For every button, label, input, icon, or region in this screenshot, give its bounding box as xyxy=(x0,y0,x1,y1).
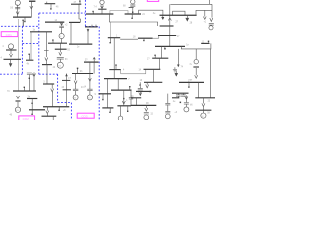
tick dot bus28r xyxy=(208,41,210,43)
bus 35 xyxy=(99,93,112,95)
wire drop to G7r xyxy=(195,49,197,60)
wire G5 drop with dot xyxy=(132,8,134,15)
square tap above bus29 xyxy=(154,56,156,58)
wire drop to G8 xyxy=(61,27,63,33)
label box CO3 xyxy=(77,113,94,118)
load arrow below bus41 xyxy=(145,105,148,111)
wire drop x89.9 xyxy=(89,62,91,89)
wire to G8b xyxy=(89,91,91,95)
load arrow stub x176.3 xyxy=(175,70,178,76)
generator G7 xyxy=(100,0,104,4)
wire long right riser xyxy=(169,4,171,46)
wire elbow over bus24 xyxy=(173,11,185,15)
wire drop to main bus xyxy=(101,9,103,14)
wire long center riser xyxy=(113,38,115,79)
wire GA xyxy=(75,84,77,95)
square tap below bus36 xyxy=(109,108,111,112)
bus 4 xyxy=(85,26,98,28)
dot x29.4 xyxy=(29,78,30,79)
bus 44 xyxy=(172,97,179,99)
generator G-tr xyxy=(209,26,213,30)
transformer X5 xyxy=(130,5,135,6)
wire gray feeder left xyxy=(17,19,19,91)
transformer X8 xyxy=(59,26,64,27)
bus 43 xyxy=(172,92,189,94)
load arrow x52 xyxy=(51,84,54,92)
wire to bus16 xyxy=(46,114,48,117)
wire v31 xyxy=(30,1,32,17)
wire drop x159.3 xyxy=(158,58,160,69)
bus 23 xyxy=(160,25,174,27)
wire line1 right drop xyxy=(211,4,213,17)
wire drop below X7r xyxy=(195,68,197,76)
bus 32 xyxy=(72,73,93,75)
bus 47 mid xyxy=(109,69,120,71)
wire gray riser center xyxy=(109,22,111,38)
load arrow under G7 xyxy=(101,5,104,9)
generator G14 xyxy=(184,107,189,112)
svg-text:CO2: CO2 xyxy=(23,117,30,120)
chain x75.6 xyxy=(74,74,77,84)
wire drop x136.3 xyxy=(135,98,137,106)
transformer pair b xyxy=(181,95,186,96)
load arrow x204.8 xyxy=(203,10,206,19)
load arrow right chain xyxy=(210,18,213,22)
load chain below bus15 xyxy=(46,107,49,114)
transformer bars GA xyxy=(73,89,78,91)
wire zone-seg B xyxy=(84,0,86,27)
wire tick up xyxy=(46,2,48,4)
wire zone-seg G xyxy=(21,26,23,74)
load arrow +2 xyxy=(60,22,63,25)
generator G7r xyxy=(194,60,198,64)
bar tick xyxy=(44,50,49,52)
wire lower link y22 xyxy=(109,14,157,26)
bus 12 xyxy=(29,109,45,111)
load tap dot xyxy=(24,17,26,21)
transformer X10 xyxy=(16,100,21,101)
square tap above bus32 xyxy=(77,69,79,74)
transformer X13b xyxy=(165,111,170,113)
load arrow L30 xyxy=(30,6,33,9)
generator G10 xyxy=(57,62,63,68)
wire zone-seg M xyxy=(70,103,72,120)
svg-text:CO1: CO1 xyxy=(6,33,13,37)
transformer X6 xyxy=(15,7,20,8)
load arrow G7r xyxy=(195,75,198,78)
load arrow x18 top xyxy=(17,96,20,98)
bus 17 xyxy=(55,48,67,50)
square tap bus27 xyxy=(109,38,111,42)
bus 38 xyxy=(117,105,131,107)
transformer X9 xyxy=(27,73,32,75)
wire zone-seg F xyxy=(38,13,40,74)
ground symbol xyxy=(173,70,177,73)
square dot xyxy=(180,102,182,104)
wire zone-seg H xyxy=(22,42,38,44)
tick with dot below bus35 xyxy=(102,94,104,100)
tap dot below bus38 right xyxy=(127,106,129,111)
wire drop bus26 xyxy=(161,46,163,58)
load arrow below bus40 xyxy=(139,91,142,95)
wire G2 to bus7 xyxy=(10,49,12,50)
bus 36b xyxy=(111,89,132,91)
wire drop left chain xyxy=(177,49,179,65)
generator G11 xyxy=(118,116,123,121)
transformer X11 xyxy=(57,58,64,59)
bus 1 xyxy=(13,16,32,18)
bus 21 main xyxy=(86,13,113,15)
wire zone-seg J xyxy=(39,73,58,75)
bus 22 xyxy=(125,13,141,15)
label box CO2 xyxy=(19,116,35,121)
load arrow W xyxy=(45,58,48,61)
node tick T1 xyxy=(22,20,24,26)
transformer X13a xyxy=(165,103,170,105)
wire G15 stem xyxy=(202,110,204,113)
chain above bus38 xyxy=(122,90,125,106)
bus 46 xyxy=(195,109,211,111)
bus 29 xyxy=(152,57,168,59)
wire step link xyxy=(153,36,159,39)
tap below bus12 xyxy=(31,110,33,114)
wire drop x47 xyxy=(46,65,48,84)
wire long right edge riser xyxy=(210,49,212,98)
bus 40 xyxy=(136,90,151,92)
wire drop x31 to bus9 xyxy=(30,32,32,60)
square tap below bus26 xyxy=(164,46,166,48)
wire drop x118.2 xyxy=(117,79,119,91)
svg-text:7C: 7C xyxy=(7,91,10,93)
square tap bus15 xyxy=(58,107,60,110)
wire zone-seg A xyxy=(39,12,86,14)
wire zone-seg E xyxy=(1,25,39,27)
wire arrow to bus13b xyxy=(45,61,47,65)
transformer chain x131 xyxy=(129,90,133,106)
wire drop x107.6 xyxy=(107,79,109,108)
ticks up bus4 xyxy=(92,25,96,27)
bus 39 xyxy=(144,81,162,83)
arrow below bus8 xyxy=(9,59,12,66)
label box CO1 xyxy=(1,32,18,37)
bus 5 xyxy=(69,43,92,45)
bus 41 xyxy=(131,104,156,106)
wire line2 xyxy=(196,10,212,15)
bus 30b xyxy=(144,68,161,70)
bus 28r xyxy=(201,42,209,44)
wire drop x52.8 xyxy=(52,92,54,107)
arrow head left chain xyxy=(177,65,180,68)
transformer bars GB xyxy=(87,89,92,91)
generator G6 xyxy=(15,0,20,5)
load arrow below bus45 xyxy=(202,98,205,107)
bus 36 xyxy=(102,107,113,109)
arrow head x89.9 xyxy=(89,78,92,81)
arrow up tick xyxy=(168,18,171,21)
square tap below bus39 xyxy=(139,82,141,84)
label box top partial xyxy=(147,0,158,1)
bus 24 long right xyxy=(160,14,197,16)
tick dot above bus47 xyxy=(115,65,117,69)
load arrow under bus17 xyxy=(59,49,62,55)
wire drop to G11 xyxy=(120,106,122,116)
generator G5 xyxy=(131,0,135,4)
transformer above bus40 xyxy=(138,88,143,90)
bus 13b xyxy=(42,64,52,66)
wire top link loop xyxy=(139,10,163,15)
transformer pair a xyxy=(176,95,181,96)
wire line1 top xyxy=(170,3,212,5)
zone boundary blue dashed xyxy=(0,0,99,120)
node dot T1 xyxy=(22,20,23,21)
wire drop to G3 xyxy=(17,102,19,107)
bus 14 xyxy=(45,21,64,23)
tick dot above bus36b xyxy=(129,87,131,90)
generator G2 xyxy=(8,44,13,49)
bus 16 xyxy=(42,115,57,117)
square tap below bus50 xyxy=(188,82,190,86)
arrowhead x88 xyxy=(87,29,90,32)
wire to bus46 xyxy=(202,107,204,111)
bus 26 xyxy=(155,45,185,47)
wire drop xyxy=(45,51,47,57)
wire drop x32.2 xyxy=(31,99,33,110)
wire to G10 xyxy=(59,59,61,62)
chain x167.8 xyxy=(167,94,169,104)
up arrow head x66.5 xyxy=(65,74,68,77)
wire below bus16 xyxy=(52,116,54,120)
bus 10 xyxy=(13,90,36,92)
gray long feeder lines xyxy=(18,11,128,91)
load arrow below bus39 xyxy=(146,82,149,88)
bus 34 xyxy=(104,78,127,80)
bus 15 xyxy=(43,106,69,108)
load arrow L6 xyxy=(16,12,19,15)
wire riser x71 xyxy=(70,22,72,44)
bus 31 xyxy=(84,61,99,63)
generator G9 xyxy=(73,95,78,100)
small up arrow on bus31 xyxy=(93,57,95,62)
bus 68 small xyxy=(129,7,134,9)
bus 18 xyxy=(138,37,153,39)
wire zone-seg I xyxy=(0,73,22,75)
bus 19 xyxy=(69,21,80,23)
wire drop from bus6 xyxy=(46,32,48,51)
bus 7 xyxy=(6,49,17,51)
wire drop x34 xyxy=(33,77,35,92)
wire long v x66.5 xyxy=(66,74,68,107)
wire stub up with dot xyxy=(79,1,81,4)
bus 8 xyxy=(4,58,22,60)
load arrow at bus24 left xyxy=(162,15,164,19)
transformer X12 xyxy=(144,112,149,114)
bus 46 xyxy=(45,3,56,5)
square tap bus18 xyxy=(143,40,144,41)
bus 20 small xyxy=(98,8,106,10)
wire top exit xyxy=(209,0,211,4)
wire drop x94.1 xyxy=(93,62,95,73)
wire link from bus27 xyxy=(120,38,138,40)
wire zone-seg K xyxy=(57,74,59,102)
generator G8b xyxy=(87,95,92,100)
wire gray loop top-center xyxy=(110,11,128,14)
svg-text:CO3: CO3 xyxy=(81,114,88,118)
wire bus6 to bus17 xyxy=(59,43,61,49)
wire zone-seg D xyxy=(98,27,100,121)
transformer right chain xyxy=(209,24,214,26)
bus 6 xyxy=(48,42,67,44)
wire drop x153.3 xyxy=(152,69,154,82)
bus 27 xyxy=(108,37,120,39)
wire gen G6 drop xyxy=(17,5,19,17)
wire drop x29.4 xyxy=(28,75,30,92)
generator G13 xyxy=(165,114,170,119)
wire tick down with dot xyxy=(50,4,52,9)
tick dot on bus6 xyxy=(52,40,54,43)
bus 11 xyxy=(27,98,37,100)
wire under-loop right xyxy=(181,43,211,49)
wire zone-seg C xyxy=(85,26,99,28)
tick dot bus9 xyxy=(28,54,30,60)
transformer X7r xyxy=(193,66,199,67)
small bus 41t xyxy=(131,97,141,99)
wire drop x198.3 xyxy=(197,82,199,97)
tick with dot on main bus xyxy=(92,11,94,14)
bus 50 right-mid xyxy=(179,81,204,83)
load arrow filled 28 xyxy=(186,15,189,21)
wire lead bus47 to bus30 xyxy=(121,70,146,74)
bus 89 small xyxy=(63,89,71,91)
bus 47 xyxy=(71,3,81,5)
load arrow under bus7 xyxy=(10,50,13,57)
bus 16 xyxy=(30,31,52,33)
bus 30 top xyxy=(29,0,35,2)
bus 33 small xyxy=(62,79,70,81)
wire elbow 47-down xyxy=(79,4,81,22)
chain G14 xyxy=(185,95,188,99)
small bus 9 xyxy=(26,59,33,61)
square tap above bus10 xyxy=(23,88,25,91)
load arrow x34 xyxy=(33,72,36,76)
bus 14b xyxy=(43,83,54,85)
wire G8 to bus6 xyxy=(61,39,63,44)
bus 45 xyxy=(195,97,215,99)
generator G8 xyxy=(59,33,64,38)
generator G12 xyxy=(144,115,149,120)
bus 17b xyxy=(158,35,176,37)
tap below bus22 with dot xyxy=(131,14,133,18)
wire arrow riser x88 xyxy=(87,29,89,44)
wire zone-seg L xyxy=(58,102,72,104)
generator G3 xyxy=(15,107,20,112)
generator G15 xyxy=(201,113,206,118)
